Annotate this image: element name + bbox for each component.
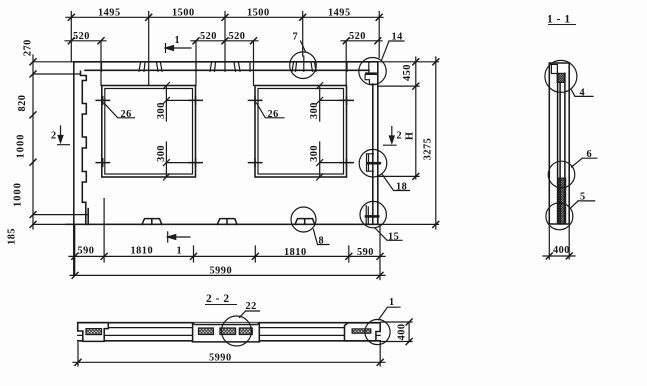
top dim row2 left 520 xyxy=(65,40,106,42)
svg-text:2 - 2: 2 - 2 xyxy=(206,293,230,305)
detail I4 weld plate xyxy=(365,63,378,85)
section I-I embedded plate 4 xyxy=(557,73,564,82)
bottom dim row1 extensions xyxy=(75,199,380,280)
section 2-2 circle 22 xyxy=(222,316,252,346)
section 2-2 circle I xyxy=(365,319,390,344)
svg-text:1495: 1495 xyxy=(328,8,351,19)
section I-I circle top xyxy=(545,60,577,92)
svg-text:450: 450 xyxy=(402,64,413,81)
section 2-2 mid hatch 1 xyxy=(199,328,214,335)
right dim 450 extensions xyxy=(378,86,419,176)
window sill bump 1 xyxy=(142,219,162,225)
section 2-2 mid hatch 3 xyxy=(239,328,252,335)
svg-text:8: 8 xyxy=(319,236,325,247)
svg-text:1500: 1500 xyxy=(247,8,270,19)
panel bottom edge xyxy=(33,223,439,225)
svg-text:5: 5 xyxy=(580,192,586,203)
section 2-2 left block hatch xyxy=(86,329,102,335)
section I-I 400 dim xyxy=(543,226,575,259)
detail I5 plate xyxy=(366,206,368,225)
left 185 extension xyxy=(33,214,88,216)
section I-I circle mid xyxy=(548,161,575,188)
leader 5 xyxy=(571,201,595,208)
svg-text:3275: 3275 xyxy=(423,138,434,161)
detail I8 bracket xyxy=(367,154,374,171)
bottom dim row1 line xyxy=(69,255,385,257)
svg-text:4: 4 xyxy=(580,88,586,99)
svg-text:6: 6 xyxy=(587,149,593,160)
leader 8 xyxy=(313,229,329,244)
svg-text:400: 400 xyxy=(553,245,570,256)
label 26 window2 xyxy=(257,103,285,118)
svg-text:520: 520 xyxy=(73,31,90,42)
left edge profile with notches xyxy=(81,71,89,224)
window sill bump 2 xyxy=(217,219,237,225)
bottom dim 5990 line xyxy=(70,274,385,276)
section 2-2 mid block xyxy=(192,323,260,342)
svg-text:1810: 1810 xyxy=(284,247,307,258)
leader 7 xyxy=(301,41,306,52)
svg-text:5990: 5990 xyxy=(209,353,232,364)
window 1 outer xyxy=(102,86,196,178)
leader I5 xyxy=(375,228,402,241)
left dim ticks xyxy=(30,59,36,228)
window 2 inner xyxy=(258,89,344,175)
right dim 450 line xyxy=(415,57,417,179)
svg-text:590: 590 xyxy=(78,246,95,257)
window2 anchor cross bottom-left xyxy=(249,159,262,167)
window2 anchor cross top-right xyxy=(340,97,353,105)
top dim row1 ticks xyxy=(68,14,382,20)
section 2-2 left block xyxy=(78,323,109,342)
svg-text:1: 1 xyxy=(177,246,183,257)
balloon circle 7 xyxy=(290,52,317,79)
section 2-2 bottom line xyxy=(78,340,381,342)
panel top edge line xyxy=(33,61,439,63)
leader 4 xyxy=(572,90,594,96)
leader I bottom xyxy=(379,307,401,320)
window1 anchor cross top-left xyxy=(96,97,109,105)
panel top band lower line xyxy=(85,69,369,71)
svg-text:520: 520 xyxy=(229,31,246,42)
svg-text:185: 185 xyxy=(7,228,18,245)
svg-text:590: 590 xyxy=(357,247,374,258)
window2 300 dim ticks xyxy=(317,83,323,181)
svg-text:270: 270 xyxy=(23,39,34,56)
top dim row1 line xyxy=(66,16,383,18)
window2 300 dims xyxy=(320,86,350,178)
leader 22 xyxy=(240,311,260,318)
top band joint ticks xyxy=(102,62,348,72)
panel right inner rib line xyxy=(372,84,374,224)
section marker I top xyxy=(166,44,192,53)
window2 anchor cross top-left xyxy=(249,97,262,105)
leader I8 xyxy=(382,174,410,191)
window1 anchor cross top-right xyxy=(189,97,202,105)
window2 anchor cross bottom-right xyxy=(340,159,353,167)
section 2-2 mid hatch 2 xyxy=(220,328,236,335)
section 2-2 line3 xyxy=(78,334,381,336)
top dim row2 right 520 xyxy=(341,40,382,42)
svg-text:520: 520 xyxy=(349,31,366,42)
svg-text:2: 2 xyxy=(51,131,57,142)
svg-text:26: 26 xyxy=(121,109,132,120)
section 2-2 400 dim xyxy=(381,322,412,342)
section 2-2 5990 dim xyxy=(73,341,385,366)
window 2 outer xyxy=(255,86,347,178)
circle 7 inner ticks xyxy=(303,56,305,71)
section I-I strip xyxy=(549,63,569,224)
svg-text:22: 22 xyxy=(246,301,257,312)
section 2-2 right block xyxy=(345,323,381,341)
window1 anchor cross bottom-right xyxy=(189,159,202,167)
panel right edge xyxy=(377,62,379,225)
left 270 extension xyxy=(33,73,81,75)
svg-text:1500: 1500 xyxy=(172,8,195,19)
svg-text:1: 1 xyxy=(175,35,181,46)
svg-text:300: 300 xyxy=(309,102,320,119)
svg-text:1 - 1: 1 - 1 xyxy=(547,14,571,26)
top dim row1 extensions xyxy=(71,12,379,86)
top dim row2 mid 520s xyxy=(191,40,258,42)
header 2-2 underline xyxy=(205,304,237,306)
section 2-2 line2 xyxy=(78,327,381,329)
section 2-2 top line xyxy=(78,322,381,324)
svg-text:300: 300 xyxy=(156,145,167,162)
svg-text:300: 300 xyxy=(309,145,320,162)
window sill bump 3 xyxy=(295,219,315,225)
section I-I top rebate xyxy=(551,64,557,73)
right dim 3275 line xyxy=(435,57,437,229)
left dim column line xyxy=(32,55,34,229)
svg-text:2: 2 xyxy=(397,131,403,142)
svg-text:1: 1 xyxy=(389,297,395,308)
section 2-2 right hatch xyxy=(352,329,371,333)
balloon circle 8 xyxy=(291,207,316,232)
svg-text:520: 520 xyxy=(200,31,217,42)
svg-text:5990: 5990 xyxy=(210,266,233,277)
marker 2 right xyxy=(383,127,396,146)
section I-I circle bottom xyxy=(546,203,573,230)
svg-text:300: 300 xyxy=(156,102,167,119)
section I-I gasket bar xyxy=(558,178,565,224)
svg-text:14: 14 xyxy=(392,32,403,43)
svg-text:1000: 1000 xyxy=(16,134,27,159)
svg-text:26: 26 xyxy=(268,109,279,120)
panel left edge xyxy=(73,62,75,275)
svg-text:1495: 1495 xyxy=(98,8,121,19)
section marker I bottom xyxy=(168,232,190,242)
balloon circle I5 xyxy=(360,201,386,227)
header I-I underline xyxy=(548,24,576,26)
svg-text:1810: 1810 xyxy=(131,246,154,257)
marker 2 left xyxy=(58,126,70,145)
window 1 inner xyxy=(105,89,193,175)
window1 anchor cross bottom-left xyxy=(96,159,109,167)
balloon circle I4 xyxy=(359,57,386,84)
svg-text:400: 400 xyxy=(396,323,407,340)
svg-text:Н: Н xyxy=(405,132,416,141)
svg-text:7: 7 xyxy=(293,32,299,43)
leader 6 xyxy=(572,158,597,167)
svg-text:18: 18 xyxy=(396,182,407,193)
balloon circle I8 xyxy=(359,149,387,177)
window1 300 dims xyxy=(166,86,199,178)
bottom dim row1 ticks xyxy=(72,253,383,259)
svg-text:820: 820 xyxy=(17,95,28,112)
svg-text:1000: 1000 xyxy=(13,182,24,207)
window1 300 dim ticks xyxy=(163,83,169,181)
label 26 window1 xyxy=(104,103,135,118)
svg-text:15: 15 xyxy=(388,232,399,243)
leader I4 xyxy=(382,41,404,60)
